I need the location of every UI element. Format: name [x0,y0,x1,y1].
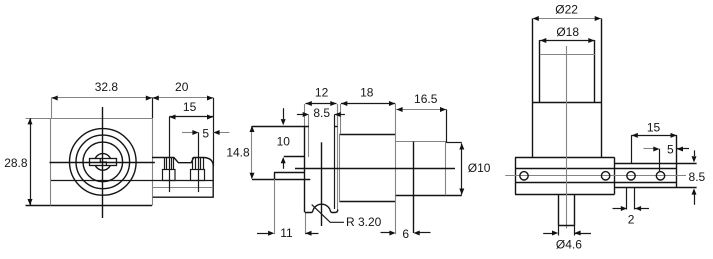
svg-text:10: 10 [277,134,291,148]
svg-text:Ø22: Ø22 [555,3,578,17]
barrel outer wall left [532,18,534,157]
solder pin bottom edge with 14.8 extension [252,179,310,181]
flange left edge [304,126,306,212]
dim 28.8 [30,118,32,205]
svg-text:32.8: 32.8 [95,80,119,94]
dia10 top stub [446,142,461,144]
solder pin left end [274,172,276,179]
svg-text:Ø10: Ø10 [468,161,491,175]
extension line through pin 1 [169,117,171,192]
dim 15 left view [169,116,213,118]
svg-text:14.8: 14.8 [226,146,250,160]
body internal step line [51,180,213,182]
pin 2 lug [192,158,194,170]
pin step line (dim 10 lower ref) [284,156,305,158]
hole 3 [627,172,635,180]
dim dia 4.6 [543,233,555,235]
dim 6 [381,232,393,234]
dim dia 22 (top line) [532,18,601,20]
flange outer right wall [337,104,339,210]
barrel inner wall right [594,40,596,103]
bar inner line upper [515,168,677,170]
dim 18 [341,103,395,105]
hole 2 [601,172,609,180]
flange left edge extension up (dim 12) [304,104,306,126]
flange left edge extension down (dim 11) [305,212,307,234]
bar horizontal centerline [505,175,686,177]
svg-text:20: 20 [175,80,189,94]
body outline right edge [152,118,154,206]
dim 16.5 [396,109,446,111]
bar inner line lower [515,182,677,184]
svg-text:R 3.20: R 3.20 [346,215,382,229]
dim 11 [257,233,271,235]
svg-text:8.5: 8.5 [313,106,330,120]
right band bottom with 8.5 stub [614,187,696,189]
svg-text:15: 15 [647,120,661,134]
stem [558,195,560,226]
svg-text:5: 5 [202,127,209,141]
svg-text:5: 5 [667,142,674,156]
extension line through pin 2 [198,132,200,192]
hole 1 [520,172,528,180]
dim 2 [626,188,628,210]
dim 5 left view [182,132,198,134]
svg-text:18: 18 [360,86,374,100]
flange top line with 14.8 extension [252,126,309,128]
extension line block right edge [213,98,215,166]
pin 1 lug [164,158,166,170]
dim 15 right view [631,135,676,137]
solder pin top edge [274,172,305,174]
svg-text:Ø18: Ø18 [556,25,579,39]
barrel top edge [396,141,447,143]
barrel bottom edge with dia10 stub [396,195,462,197]
svg-text:15: 15 [183,100,197,114]
barrel inner wall left [539,40,541,103]
circle barrel inner [83,142,123,182]
dim 32.8 [52,97,153,99]
terminal block lower line [152,187,213,189]
horizontal centerline [50,162,155,164]
inner shoulder line [540,54,595,56]
svg-text:6: 6 [402,227,409,241]
band right edge + 15/5 extension [676,135,678,188]
barrel right end [445,142,447,196]
flange inner left wall [308,115,310,157]
right band top with 8.5 stub [614,163,696,165]
circle barrel mid [76,135,130,189]
svg-text:12: 12 [315,86,329,100]
svg-text:11: 11 [280,226,293,240]
dim 8.5 middle [297,114,306,116]
dim 14.8 [251,126,253,179]
mounting bar outline [515,157,614,159]
svg-text:8.5: 8.5 [689,170,706,184]
vertical centerline [102,107,104,218]
dim dia 18 [540,40,595,42]
middle horizontal centerline [295,168,455,170]
vertical centerline [566,46,568,228]
flange vertical centerline [321,142,323,226]
main body right edge + extensions (dims 18/6) [395,104,397,234]
dim 10 middle [283,108,285,119]
svg-text:16.5: 16.5 [414,92,438,106]
body outline left edge [50,118,52,206]
main body left edge [339,134,341,201]
flange top right segment [335,126,338,128]
dim dia 10 [461,143,463,194]
32.8/20 extension above body [152,98,154,118]
shoulder line [532,102,601,104]
dim 8.5 right view [694,150,696,156]
center slot [90,159,117,166]
extension line pin bottom (dim 11) [274,179,276,234]
circle center pin [95,154,112,171]
svg-text:Ø4.6: Ø4.6 [556,238,582,252]
svg-text:2: 2 [628,212,635,226]
hole 4 [656,172,664,180]
body outline bottom edge with extension stub [26,205,153,207]
leader R 3.20 [312,205,344,223]
body outline top edge with 28.8 extension stub [26,118,153,120]
dim 5 right view [644,148,657,150]
main body bottom edge [339,201,395,203]
flange inner right wall [334,115,336,209]
barrel outer wall right [601,18,603,157]
barrel nut edge / dim 6 extension [413,142,415,233]
svg-text:28.8: 28.8 [4,156,28,170]
main body top edge [339,134,395,136]
dim 20 [152,97,213,99]
flange bottom web with R3.2 notch [305,204,338,212]
circle outer barrel rim [70,129,137,196]
terminal block outline [152,158,213,198]
dim 12 [305,103,336,105]
